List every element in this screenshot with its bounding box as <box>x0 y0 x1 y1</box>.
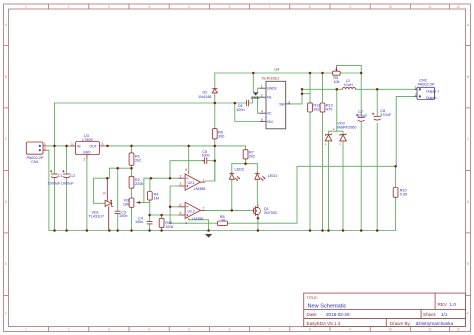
svg-text:470: 470 <box>326 107 332 111</box>
svg-text:100: 100 <box>218 135 224 139</box>
svg-text:2: 2 <box>84 158 86 162</box>
LED1 <box>255 173 266 180</box>
svg-text:1: 1 <box>415 86 417 90</box>
svg-text:C1: C1 <box>58 174 63 178</box>
wire R3 wiper to R4 <box>140 202 150 204</box>
svg-text:1: 1 <box>44 142 46 146</box>
junction LED2-gate <box>231 209 234 212</box>
junction gnd-rail-flag <box>207 229 210 232</box>
junction R12-rail <box>321 229 324 232</box>
svg-text:U2.2: U2.2 <box>188 209 195 213</box>
diode VD3b <box>325 133 347 146</box>
inductor L2 <box>342 87 355 89</box>
svg-text:VC: VC <box>267 112 272 116</box>
svg-text:2: 2 <box>180 174 182 178</box>
svg-text:0.05: 0.05 <box>400 193 407 197</box>
wire LED2 leads <box>231 164 233 174</box>
junction C2-input <box>65 145 68 148</box>
wire U2.1 output up to C5 <box>205 161 215 181</box>
wire R5 wiper loop <box>336 65 361 73</box>
diode VD3a <box>325 127 335 141</box>
capacitor C4 <box>147 222 153 224</box>
junction VD1-rail <box>108 229 111 232</box>
transistor Q1 <box>253 204 261 216</box>
svg-text:3: 3 <box>180 182 182 186</box>
svg-text:E: E <box>5 262 7 266</box>
svg-text:GND: GND <box>251 95 260 100</box>
junction U2.1-V+ <box>187 145 190 148</box>
svg-text:Date:: Date: <box>307 312 318 317</box>
svg-text:220k: 220k <box>135 182 143 186</box>
title block <box>304 293 466 326</box>
svg-text:10: 10 <box>389 328 393 332</box>
resistor R7 <box>243 150 248 159</box>
junction TL431-R <box>106 177 109 180</box>
junction ref-node <box>130 167 133 170</box>
junction R10-top <box>394 165 397 168</box>
svg-text:3: 3 <box>102 142 104 146</box>
wire R7 top <box>245 146 247 150</box>
junction C5-out <box>214 159 217 162</box>
svg-text:1: 1 <box>261 85 263 89</box>
svg-text:GND3: GND3 <box>267 87 277 91</box>
capacitor C1 <box>50 170 58 178</box>
junction C1-rail <box>53 229 56 232</box>
resistor R8 <box>218 221 228 225</box>
capacitor C3 <box>115 211 121 213</box>
pin numbers (dark red) <box>44 85 417 226</box>
junction C8-rail <box>376 229 379 232</box>
capacitor C7 <box>356 114 365 122</box>
svg-text:TL431LP: TL431LP <box>89 214 105 218</box>
junction R11-rail <box>309 229 312 232</box>
svg-text:4: 4 <box>185 221 187 225</box>
svg-text:6: 6 <box>229 328 231 332</box>
svg-text:3: 3 <box>108 5 110 9</box>
svg-text:MBRF2060: MBRF2060 <box>337 126 356 130</box>
junction C1-input <box>53 145 56 148</box>
svg-text:6: 6 <box>229 5 231 9</box>
resistor R4 <box>147 192 152 201</box>
resistor R11 <box>308 103 313 112</box>
svg-text:9: 9 <box>349 5 351 9</box>
svg-text:1.0: 1.0 <box>450 302 457 307</box>
svg-text:2: 2 <box>68 328 70 332</box>
wire U3 GND down <box>86 159 88 231</box>
svg-text:2: 2 <box>415 93 417 97</box>
resistor R12 <box>320 103 325 112</box>
svg-text:10: 10 <box>389 5 393 9</box>
svg-text:7: 7 <box>269 328 271 332</box>
junction R7-LEDs <box>244 162 247 165</box>
wire current sense line <box>297 165 396 167</box>
svg-text:100n: 100n <box>236 108 244 112</box>
svg-text:10k: 10k <box>123 202 129 206</box>
svg-text:VIN: VIN <box>267 120 273 124</box>
svg-text:7: 7 <box>203 207 205 211</box>
svg-text:New Schematic: New Schematic <box>308 303 347 309</box>
capacitor C8 <box>372 113 381 121</box>
svg-text:10k: 10k <box>333 80 339 84</box>
svg-text:OUT: OUT <box>90 145 97 149</box>
wire C1 column <box>54 103 56 174</box>
wire VD3 cathode drop <box>329 89 337 135</box>
svg-text:7: 7 <box>269 5 271 9</box>
capacitor C6 <box>246 100 248 107</box>
svg-text:4: 4 <box>148 5 150 9</box>
svg-text:10: 10 <box>221 218 225 222</box>
svg-text:100k: 100k <box>165 225 173 229</box>
wire R10 leads <box>395 166 397 187</box>
svg-text:9: 9 <box>349 328 351 332</box>
junction gnd-flag-tap <box>252 72 255 75</box>
ground flag bottom <box>205 234 212 238</box>
junction C3-top <box>116 167 119 170</box>
junction U3-out <box>106 145 109 148</box>
svg-text:1/1: 1/1 <box>441 312 448 317</box>
svg-text:5: 5 <box>261 118 263 122</box>
svg-text:4: 4 <box>148 328 150 332</box>
svg-text:GND: GND <box>83 151 91 155</box>
svg-text:LM358: LM358 <box>192 217 204 221</box>
wire C4 column <box>149 215 151 221</box>
ground flag U4 <box>251 92 260 100</box>
wire U4 FB from C6 <box>249 97 260 103</box>
svg-text:1: 1 <box>71 142 73 146</box>
svg-text:F: F <box>467 312 469 316</box>
svg-text:CN1: CN1 <box>31 160 39 164</box>
wire +24V rail y=103 <box>55 102 247 104</box>
svg-text:Output -: Output - <box>426 96 438 100</box>
svg-text:5: 5 <box>188 328 190 332</box>
wire C5 feedback line <box>170 161 204 179</box>
svg-text:3: 3 <box>288 100 290 104</box>
svg-text:PA002-2P: PA002-2P <box>418 83 435 87</box>
svg-text:1: 1 <box>203 178 205 182</box>
wire sense line down to R8 <box>296 166 298 223</box>
svg-text:470uF: 470uF <box>357 114 368 118</box>
junction VD3-tap <box>336 88 339 91</box>
svg-text:5: 5 <box>180 211 182 215</box>
svg-text:U2.1: U2.1 <box>188 181 195 185</box>
svg-text:1N4148: 1N4148 <box>198 95 211 99</box>
junction C2-rail <box>65 229 68 232</box>
svg-text:D2: D2 <box>203 90 208 94</box>
wire GND top rail <box>215 72 333 74</box>
opamp U2.2 <box>179 202 206 220</box>
wire VD3 anode legs <box>328 141 330 231</box>
junction R12-gnd-rail <box>321 72 324 75</box>
svg-text:2: 2 <box>68 5 70 9</box>
svg-text:B: B <box>5 75 7 79</box>
junction SW-L2 <box>301 88 304 91</box>
potentiometer R3 <box>129 198 140 207</box>
wire U4 GND3 down to flag <box>258 88 260 92</box>
svg-text:L7805: L7805 <box>82 138 93 142</box>
junction R11-gnd-rail <box>309 72 312 75</box>
svg-text:3: 3 <box>108 328 110 332</box>
svg-text:6: 6 <box>180 203 182 207</box>
resistor R10 <box>393 188 398 198</box>
svg-text:1000uF: 1000uF <box>61 182 75 186</box>
svg-text:470uF: 470uF <box>380 113 391 117</box>
svg-text:2N7002: 2N7002 <box>264 211 277 215</box>
wire U4 VIN from rail <box>235 103 260 122</box>
svg-text:2k2: 2k2 <box>135 159 141 163</box>
svg-text:U4: U4 <box>275 67 280 71</box>
connector CN2 <box>415 87 435 99</box>
wire C2 column <box>66 146 68 174</box>
junction C7-rail <box>360 229 363 232</box>
svg-text:1000uF: 1000uF <box>48 182 62 186</box>
wire TL431 R pin <box>106 178 108 200</box>
junction R1-rail <box>130 145 133 148</box>
svg-text:4: 4 <box>261 110 263 114</box>
junction D2-input-rail <box>214 102 217 105</box>
wire U2.1 plus to U2.2 minus <box>170 186 179 207</box>
wire bottom rail <box>49 230 396 232</box>
wire U2.1 minus line <box>144 178 179 202</box>
svg-text:EasyEDA V5.1.3: EasyEDA V5.1.3 <box>307 321 341 326</box>
wire CN1 pin1 to U3 IN <box>46 145 76 147</box>
junction VD3b-rail <box>342 229 345 232</box>
IC U4 <box>260 81 290 129</box>
wire C3 column <box>117 168 119 211</box>
wire R7 bottom to LED tees <box>245 159 247 164</box>
resistor R2 <box>129 176 134 188</box>
svg-text:F: F <box>5 312 7 316</box>
svg-text:Drawn By:: Drawn By: <box>390 321 411 326</box>
svg-text:SW: SW <box>279 102 285 106</box>
junction R3-rail <box>130 229 133 232</box>
svg-text:LED2: LED2 <box>235 167 245 171</box>
svg-text:2k2: 2k2 <box>313 107 319 111</box>
svg-text:1M: 1M <box>154 196 159 200</box>
TL431 VD1 <box>105 200 113 206</box>
svg-text:47uH: 47uH <box>344 83 353 87</box>
wire R11 column <box>309 73 311 103</box>
junction VD3a-rail <box>327 229 330 232</box>
component labels (blue) <box>27 67 440 229</box>
wire CN2 pin2 down to sense line <box>396 96 414 166</box>
wire link SW-R11 <box>302 93 310 95</box>
potentiometer R5 <box>333 67 341 75</box>
svg-text:XL4016E1: XL4016E1 <box>262 77 280 81</box>
resistor R6 <box>212 129 217 139</box>
junction C4-rail <box>148 229 151 232</box>
wire R4 leads <box>149 178 151 191</box>
diode D2 <box>212 88 217 93</box>
wire U2.2 output line <box>205 209 253 211</box>
wire R8 line <box>170 222 217 224</box>
junction C8-tap <box>376 88 379 91</box>
svg-text:LM358: LM358 <box>194 187 206 191</box>
svg-text:5: 5 <box>188 5 190 9</box>
wire U2.2 pin4 gnd jog <box>189 220 209 231</box>
svg-text:100n: 100n <box>135 220 143 224</box>
svg-text:TITLE:: TITLE: <box>307 296 318 300</box>
junction U3gnd-rail <box>86 229 89 232</box>
svg-text:2018-02-26: 2018-02-26 <box>326 312 350 317</box>
svg-text:E: E <box>467 262 469 266</box>
svg-text:B: B <box>467 75 469 79</box>
wire TL431 cathode down <box>108 207 110 231</box>
svg-text:8: 8 <box>185 168 187 172</box>
wire U2.2 minus node down to R8 line <box>169 207 171 223</box>
svg-text:1: 1 <box>25 5 27 9</box>
svg-text:FB: FB <box>267 96 272 100</box>
junction R40-rail <box>160 229 163 232</box>
wire U4 VC up <box>258 97 260 113</box>
svg-text:11: 11 <box>428 5 432 9</box>
LED2 <box>229 173 240 180</box>
connector CN1 <box>26 142 46 154</box>
junction R6-rail <box>214 145 217 148</box>
regulator U3 <box>71 142 105 159</box>
junction C3-rail <box>116 229 119 232</box>
capacitor C5 <box>202 157 207 164</box>
junction R4-C4 <box>148 214 151 217</box>
junction R5-right <box>360 72 363 75</box>
junction Q1-rail <box>257 229 260 232</box>
wire D2/R6 column <box>214 73 216 89</box>
svg-text:IN: IN <box>77 145 81 149</box>
svg-text:12: 12 <box>456 328 460 332</box>
junction C5-branch <box>169 177 172 180</box>
svg-text:Output +: Output + <box>426 89 439 93</box>
wire U2.2 plus line <box>150 214 179 216</box>
junction R4-top <box>150 177 153 180</box>
svg-text:C2: C2 <box>70 174 75 178</box>
svg-text:REV: REV <box>438 302 448 307</box>
wire ref node line <box>94 168 132 203</box>
wire gnd flag drop <box>252 73 254 92</box>
capacitor C2 <box>62 170 70 178</box>
opamp U2.1 <box>179 172 206 191</box>
svg-text:2: 2 <box>261 94 263 98</box>
wire R12 column <box>322 73 324 103</box>
wire R40 column <box>161 215 163 218</box>
svg-text:100n: 100n <box>119 214 127 218</box>
svg-text:dzmitrymarchanka: dzmitrymarchanka <box>416 321 454 326</box>
junction R40-top <box>160 214 163 217</box>
wire C7 column <box>360 73 362 118</box>
svg-text:8: 8 <box>309 5 311 9</box>
svg-text:11: 11 <box>428 328 432 332</box>
svg-text:2k2: 2k2 <box>249 155 255 159</box>
resistor R1 <box>129 153 134 165</box>
svg-text:1: 1 <box>25 328 27 332</box>
junction U2.2-minus <box>169 206 172 209</box>
svg-text:8: 8 <box>309 328 311 332</box>
junction Q1-source <box>257 217 260 220</box>
svg-text:100n: 100n <box>201 154 209 158</box>
wire R1R2R3 column <box>131 146 133 153</box>
wire U2.1 pin8 up <box>188 146 190 172</box>
wire C8 column <box>376 89 378 116</box>
junction SW-link <box>301 92 304 95</box>
wire Q1 source down <box>257 217 259 231</box>
wire SW to L2 line <box>290 89 302 104</box>
resistor R40 <box>159 218 164 227</box>
wire U3 OUT +12V rail <box>105 145 246 147</box>
svg-text:Sheet:: Sheet: <box>423 312 436 317</box>
wire L2 output line <box>302 88 342 90</box>
wire CN1 pin2 down to bottom rail <box>46 150 49 230</box>
junction VIN-tap <box>234 102 237 105</box>
svg-text:2: 2 <box>44 147 46 151</box>
svg-text:LED1: LED1 <box>268 174 278 178</box>
svg-text:12: 12 <box>456 5 460 9</box>
wire LED1 leads <box>256 164 258 174</box>
